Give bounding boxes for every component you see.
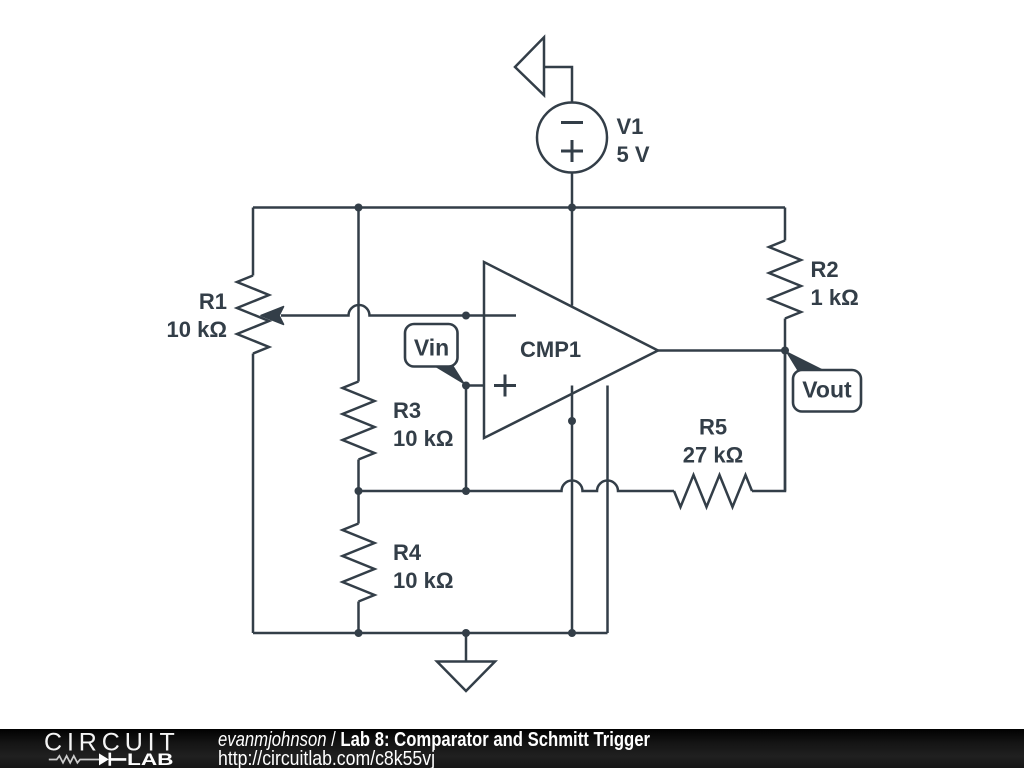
node Vout flag box bbox=[793, 370, 861, 412]
ground stub bbox=[465, 633, 468, 662]
node dot minus input bbox=[462, 312, 470, 320]
wire V1 bottom stub bbox=[571, 173, 574, 208]
node dot bottom rail / V- bbox=[568, 629, 576, 637]
svg-text:10 kΩ: 10 kΩ bbox=[393, 568, 453, 593]
node dot V- pin joint bbox=[568, 417, 576, 425]
node Vin flag box bbox=[405, 324, 458, 367]
wire R5 right stub to riser bbox=[752, 351, 785, 492]
wire comparator gnd pin down to bottom rail bbox=[606, 386, 609, 634]
svg-text:5 V: 5 V bbox=[617, 142, 650, 167]
svg-text:V1: V1 bbox=[617, 114, 644, 139]
node dot plus input Vin bbox=[462, 382, 470, 390]
node dot output Vout bbox=[781, 347, 789, 355]
svg-text:R4: R4 bbox=[393, 540, 422, 565]
wire comparator V- pin down to bottom rail bbox=[571, 386, 574, 634]
op-amp U1 comparator CMP1 triangle bbox=[484, 262, 658, 438]
resistor R4 bbox=[343, 524, 375, 602]
node dot R3/R4 junction bbox=[355, 487, 363, 495]
comparator plus marker bbox=[494, 375, 516, 397]
wire V1 top stub to flag bbox=[544, 67, 572, 102]
node dot bottom rail / ground bbox=[462, 629, 470, 637]
svg-text:10 kΩ: 10 kΩ bbox=[393, 426, 453, 451]
node dot feedback / plus branch bbox=[462, 487, 470, 495]
wire R2 bottom stub to output node bbox=[784, 319, 787, 492]
node dot top rail / R3 branch bbox=[355, 204, 363, 212]
svg-text:http://circuitlab.com/c8k55vj: http://circuitlab.com/c8k55vj bbox=[218, 748, 435, 768]
ground triangle bbox=[437, 662, 495, 692]
wire plus input vertical (Vin node down to feedback wire) bbox=[465, 386, 468, 492]
voltage source V1 circle bbox=[537, 103, 607, 173]
logo squiggle resistor bbox=[49, 756, 99, 763]
wire R2 top stub bbox=[784, 208, 787, 241]
wire R4 top stub bbox=[357, 491, 360, 524]
wire feedback horizontal with hops over x572 and x607.5 bbox=[359, 481, 675, 492]
svg-text:10 kΩ: 10 kΩ bbox=[167, 317, 227, 342]
wire plus input stub bbox=[466, 384, 484, 387]
resistor R2 bbox=[769, 241, 801, 319]
wire top rail bbox=[253, 206, 785, 209]
svg-text:CMP1: CMP1 bbox=[520, 337, 581, 362]
wire left vertical bottom (R1 to bottom rail) bbox=[252, 354, 255, 634]
resistor R1 (potentiometer body) bbox=[237, 276, 269, 354]
node Vin flag pointer bbox=[432, 365, 466, 386]
node dot bottom rail / R4 bbox=[355, 629, 363, 637]
V1 minus sign bbox=[561, 121, 583, 124]
svg-text:LAB: LAB bbox=[127, 750, 174, 768]
resistor R3 bbox=[343, 382, 375, 460]
R1 wiper arrow bbox=[261, 307, 284, 325]
logo diode bbox=[99, 753, 109, 765]
power flag triangle bbox=[515, 37, 544, 95]
wire comparator V+ pin (rail to triangle) bbox=[571, 208, 574, 306]
svg-text:27 kΩ: 27 kΩ bbox=[683, 443, 743, 468]
svg-text:Vin: Vin bbox=[414, 335, 449, 361]
wire comparator minus input stub bbox=[466, 314, 516, 317]
node dot top rail / V1 bbox=[568, 204, 576, 212]
svg-text:R1: R1 bbox=[199, 289, 227, 314]
wire left vertical top (rail to R1) bbox=[252, 208, 255, 276]
wire bottom rail bbox=[253, 632, 608, 635]
wire R3 bottom stub bbox=[357, 460, 360, 492]
V1 plus sign bbox=[561, 140, 583, 162]
resistor R5 bbox=[674, 475, 752, 507]
wire R4 bottom stub bbox=[357, 602, 360, 634]
svg-text:Vout: Vout bbox=[802, 377, 852, 403]
svg-text:R3: R3 bbox=[393, 398, 421, 423]
node Vout flag pointer bbox=[785, 351, 824, 371]
svg-text:R2: R2 bbox=[811, 257, 839, 282]
svg-text:1 kΩ: 1 kΩ bbox=[811, 285, 859, 310]
svg-text:R5: R5 bbox=[699, 415, 727, 440]
wire vertical R3 branch (top rail to R3) bbox=[357, 208, 360, 382]
wire R1 wiper horizontal with hop over x358.5 bbox=[281, 305, 466, 316]
wire comparator output bbox=[658, 349, 785, 352]
